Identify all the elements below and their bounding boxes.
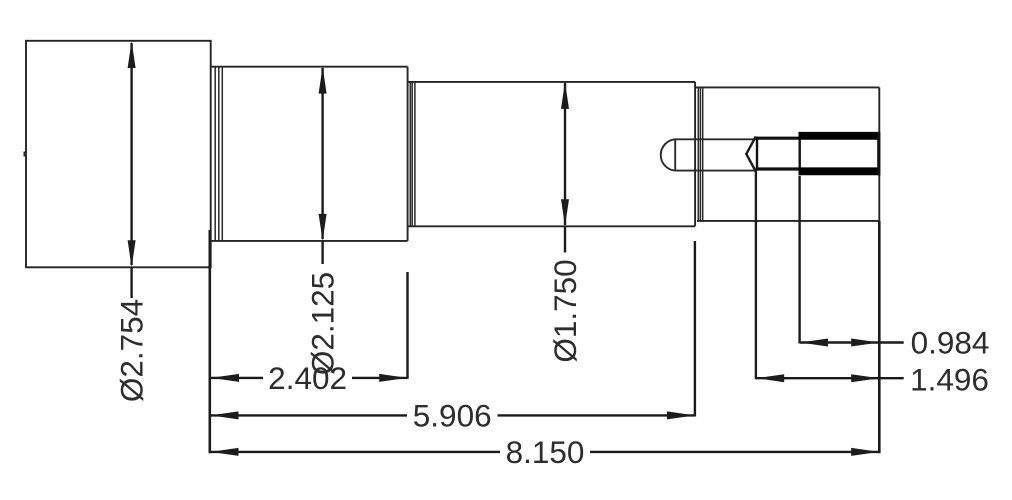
left block Ø2.754 outline xyxy=(26,41,211,267)
extension line at 2.402 right xyxy=(406,272,408,379)
dimension 8.150 horizontal xyxy=(211,448,880,456)
dimension Ø2.125 vertical xyxy=(319,67,327,264)
svg-text:5.906: 5.906 xyxy=(413,397,492,433)
section Ø1.750 outline xyxy=(408,82,695,226)
dimension Ø1.750 vertical xyxy=(561,82,569,253)
center tick on left edge xyxy=(24,152,27,157)
extension line at 1.496 left xyxy=(755,171,757,379)
svg-text:Ø2.754: Ø2.754 xyxy=(114,299,150,402)
thread thick bottom band xyxy=(799,167,880,175)
section Ø2.125 outline xyxy=(211,67,408,241)
svg-text:Ø1.750: Ø1.750 xyxy=(547,259,583,362)
extension line at 5.906 right xyxy=(694,241,696,417)
groove lines between block and Ø2.125 section xyxy=(215,68,222,241)
right end section outline xyxy=(696,87,879,221)
groove lines between Ø1.750 and right end sections xyxy=(698,88,702,221)
groove lines between Ø2.125 and Ø1.750 sections xyxy=(410,83,415,226)
extension line left (x=209.8) xyxy=(209,230,212,453)
svg-text:2.402: 2.402 xyxy=(268,360,347,396)
svg-text:8.150: 8.150 xyxy=(506,434,585,470)
thread thick top band xyxy=(799,132,880,140)
dimension 2.402 horizontal xyxy=(211,374,407,382)
dimension 5.906 horizontal xyxy=(211,411,695,419)
thread right edge xyxy=(877,132,880,175)
set screw divider line xyxy=(799,132,801,175)
dimension 0.984 horizontal xyxy=(800,339,904,347)
dimension Ø2.754 vertical xyxy=(128,41,136,298)
chevron cone point of set screw xyxy=(746,137,756,172)
extension line right (x=879.3) xyxy=(878,221,881,453)
dimension 1.496 horizontal xyxy=(756,374,904,382)
extension line at 0.984 left xyxy=(798,176,800,344)
svg-text:1.496: 1.496 xyxy=(910,362,989,398)
set screw body (left part) xyxy=(756,137,800,171)
rounded-end slot (drilled hole) xyxy=(661,139,756,170)
svg-text:0.984: 0.984 xyxy=(911,325,990,361)
